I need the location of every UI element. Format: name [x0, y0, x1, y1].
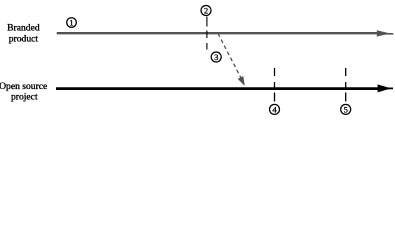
- svg-text:project: project: [11, 92, 38, 103]
- svg-text:product: product: [9, 34, 39, 45]
- dashed tick at event 4: [274, 68, 276, 102]
- dashed diagonal arrow (fork, event 3): [218, 34, 245, 87]
- timeline arrow: branded product (gray): [57, 30, 394, 36]
- svg-text:3: 3: [214, 52, 218, 62]
- event circle 5: [341, 104, 351, 114]
- svg-text:Open source: Open source: [0, 81, 47, 92]
- svg-text:2: 2: [204, 6, 208, 16]
- label: Open source project: [0, 81, 47, 103]
- timeline arrow: open source project (black): [56, 84, 393, 92]
- event circle 4: [270, 104, 280, 114]
- dashed tick at event 5: [345, 68, 347, 102]
- svg-text:Branded: Branded: [7, 22, 40, 33]
- dashed drop line from event 2: [206, 17, 208, 50]
- event circle 3: [211, 52, 221, 62]
- event circle 2: [201, 6, 211, 16]
- label: Branded product: [7, 22, 40, 44]
- event circle 1: [67, 18, 77, 28]
- svg-text:5: 5: [344, 104, 348, 114]
- svg-text:1: 1: [69, 18, 73, 28]
